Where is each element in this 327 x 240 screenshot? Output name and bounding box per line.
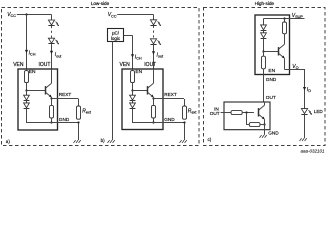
svg-text:OUT: OUT bbox=[210, 111, 220, 116]
svg-text:OUT: OUT bbox=[266, 95, 276, 100]
svg-text:IOUT: IOUT bbox=[39, 62, 51, 68]
svg-text:LED: LED bbox=[314, 109, 324, 114]
svg-text:Low-side: Low-side bbox=[91, 1, 110, 6]
svg-text:µC/: µC/ bbox=[112, 30, 120, 35]
svg-text:IOUT: IOUT bbox=[144, 62, 156, 68]
svg-text:EN: EN bbox=[29, 69, 36, 75]
svg-text:aaa-032101: aaa-032101 bbox=[300, 149, 325, 154]
svg-text:GND: GND bbox=[266, 77, 277, 82]
svg-text:b): b) bbox=[101, 138, 106, 143]
svg-text:High-side: High-side bbox=[255, 1, 275, 6]
svg-text:REXT: REXT bbox=[59, 92, 72, 97]
svg-text:EN: EN bbox=[135, 69, 142, 75]
svg-text:GND: GND bbox=[164, 117, 175, 122]
svg-text:EN: EN bbox=[268, 68, 275, 74]
svg-text:GND: GND bbox=[268, 130, 279, 135]
svg-text:VEN: VEN bbox=[120, 62, 131, 68]
svg-text:GND: GND bbox=[59, 117, 70, 122]
svg-text:a): a) bbox=[6, 139, 11, 144]
svg-text:c): c) bbox=[208, 137, 212, 142]
svg-text:VEN: VEN bbox=[13, 62, 24, 68]
svg-text:REXT: REXT bbox=[164, 92, 177, 97]
svg-text:logic: logic bbox=[111, 36, 121, 41]
